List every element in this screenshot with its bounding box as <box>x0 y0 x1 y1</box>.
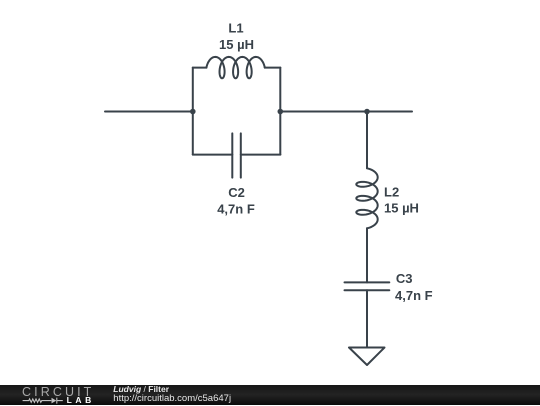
footer url <box>113 394 231 403</box>
capacitor C3 <box>345 282 390 290</box>
wire L2 to C3 <box>366 228 368 282</box>
wire box top-right segment <box>265 67 281 69</box>
ground <box>349 348 385 366</box>
inductor L1 <box>206 57 264 78</box>
footer title <box>113 385 169 393</box>
node junction L2 tap <box>364 109 370 115</box>
svg-text:4,7n F: 4,7n F <box>395 288 433 303</box>
wire box right vertical <box>279 68 281 155</box>
wire box left vertical <box>192 68 194 155</box>
inductor L2 <box>356 168 377 228</box>
node junction left <box>190 109 196 115</box>
CircuitLab logo <box>22 386 97 405</box>
capacitor C2 <box>232 133 241 177</box>
svg-text:L2: L2 <box>384 184 399 199</box>
wire box top-left segment <box>193 67 207 69</box>
wire C3 to ground <box>366 290 368 347</box>
wire box bottom-right segment <box>241 154 280 156</box>
svg-text:15 µH: 15 µH <box>219 37 254 52</box>
wire L2 branch top <box>366 112 368 169</box>
svg-text:15 µH: 15 µH <box>384 201 419 216</box>
svg-text:4,7n F: 4,7n F <box>217 201 255 216</box>
svg-text:L1: L1 <box>228 21 243 36</box>
logo resistor+diode glyph <box>22 394 66 406</box>
wire output to right <box>280 111 412 113</box>
svg-text:C3: C3 <box>396 271 413 286</box>
footer bar <box>0 385 540 405</box>
wire box bottom-left segment <box>193 154 233 156</box>
svg-text:C2: C2 <box>228 185 245 200</box>
wire left input <box>105 111 193 113</box>
node junction right <box>278 109 284 115</box>
